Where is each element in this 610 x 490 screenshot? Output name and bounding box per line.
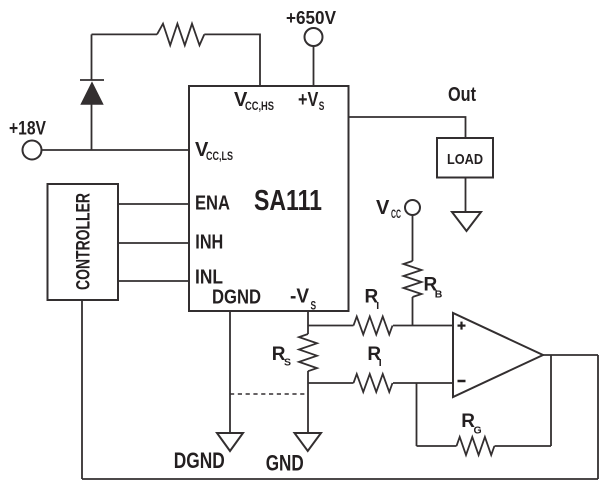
label R_S: [272, 344, 291, 369]
label R_B: [424, 274, 443, 300]
wire +18V to V_CC,LS pin: [42, 149, 190, 151]
pin label -V_S: [290, 286, 316, 313]
wire R_I to op-amp - input: [393, 382, 453, 384]
svg-text:INH: INH: [195, 231, 223, 253]
svg-text:-V: -V: [290, 286, 310, 308]
op-amp U2: [453, 313, 543, 397]
wire INL: [118, 280, 189, 282]
label R_I (noninverting): [365, 287, 380, 313]
pin label V_CC,HS: [234, 89, 274, 113]
wire op-amp output: [543, 354, 598, 356]
label R_I (inverting): [367, 344, 381, 369]
wire Out from +V_S side to load: [349, 117, 466, 138]
svg-text:+18V: +18V: [9, 119, 46, 140]
terminal +650V: [305, 28, 323, 46]
pin label +V_S: [298, 89, 325, 113]
pin label V_CC,LS: [195, 139, 233, 163]
wire DGND pin down: [229, 311, 231, 433]
wire diode anode to +18V rail: [91, 103, 93, 150]
svg-text:+650V: +650V: [286, 8, 336, 28]
svg-text:LOAD: LOAD: [447, 151, 483, 168]
svg-text:Out: Out: [448, 84, 476, 106]
wire +650V to +V_S pin: [313, 46, 315, 86]
resistor (bootstrap, unlabeled): [157, 24, 204, 46]
terminal +18V: [23, 141, 42, 160]
op-amp feedback loop: controller drop wire: [81, 300, 83, 479]
svg-text:S: S: [311, 301, 317, 313]
svg-text:GND: GND: [266, 451, 304, 476]
resistor R_G: [457, 437, 495, 455]
wire top rail right segment: [204, 34, 260, 86]
svg-text:DGND: DGND: [174, 448, 225, 473]
wire feedback riser to - input: [416, 383, 418, 446]
resistor R_I (inverting input): [354, 374, 393, 392]
svg-text:I: I: [376, 300, 379, 312]
load box: [437, 138, 493, 178]
svg-text:B: B: [435, 289, 443, 301]
svg-text:INL: INL: [195, 267, 223, 289]
svg-text:V: V: [376, 197, 390, 219]
svg-text:S: S: [319, 101, 325, 113]
IC U1 SA111 box: [189, 86, 349, 311]
label V_CC: [376, 197, 401, 221]
resistor R_S (sense): [299, 334, 317, 371]
wire noninverting branch left segment: [308, 325, 354, 327]
terminal V_CC: [405, 200, 420, 215]
wire feedback bottom right segment: [495, 445, 552, 447]
svg-text:CONTROLLER: CONTROLLER: [74, 193, 95, 290]
label R_G: [461, 411, 481, 437]
wire -V_S pin down: [307, 311, 309, 334]
svg-text:G: G: [474, 425, 482, 437]
ground (load): [452, 212, 481, 231]
svg-text:CC: CC: [391, 209, 401, 221]
op-amp - input mark: [458, 380, 466, 383]
ground DGND: [217, 433, 243, 451]
wire feedback drop: [550, 355, 552, 446]
ground GND: [295, 433, 322, 451]
wire right riser to op-amp output: [597, 355, 599, 479]
svg-text:ENA: ENA: [195, 193, 230, 215]
resistor R_I (noninverting input): [354, 317, 393, 335]
resistor R_B: [404, 261, 422, 297]
svg-text:CC,LS: CC,LS: [206, 151, 233, 163]
wire diode cathode up to top rail: [91, 34, 93, 80]
wire top rail left segment: [92, 33, 158, 35]
wire R_I to op-amp + input: [393, 325, 453, 327]
dashed link DGND to GND: [230, 393, 308, 395]
svg-text:CC,HS: CC,HS: [245, 101, 274, 113]
wire feedback bottom left segment: [417, 445, 457, 447]
svg-text:I: I: [379, 357, 382, 369]
wire INH: [118, 242, 189, 244]
wire ENA: [118, 203, 189, 205]
wire R_S to gnd node: [307, 371, 309, 433]
wire V_CC to R_B: [412, 215, 414, 261]
diode D1 (zener to VCC,HS bootstrap): [80, 80, 104, 104]
wire load to ground: [465, 178, 467, 213]
controller box: [48, 184, 119, 300]
svg-text:+V: +V: [298, 89, 319, 111]
svg-text:DGND: DGND: [212, 287, 261, 309]
svg-text:SA111: SA111: [254, 185, 322, 217]
wire inverting branch left segment: [308, 382, 354, 384]
svg-text:S: S: [284, 357, 291, 369]
op-amp + input mark: [458, 322, 466, 330]
wire bottom feedback rail: [82, 478, 598, 480]
wire R_B to noninverting node: [412, 297, 414, 326]
